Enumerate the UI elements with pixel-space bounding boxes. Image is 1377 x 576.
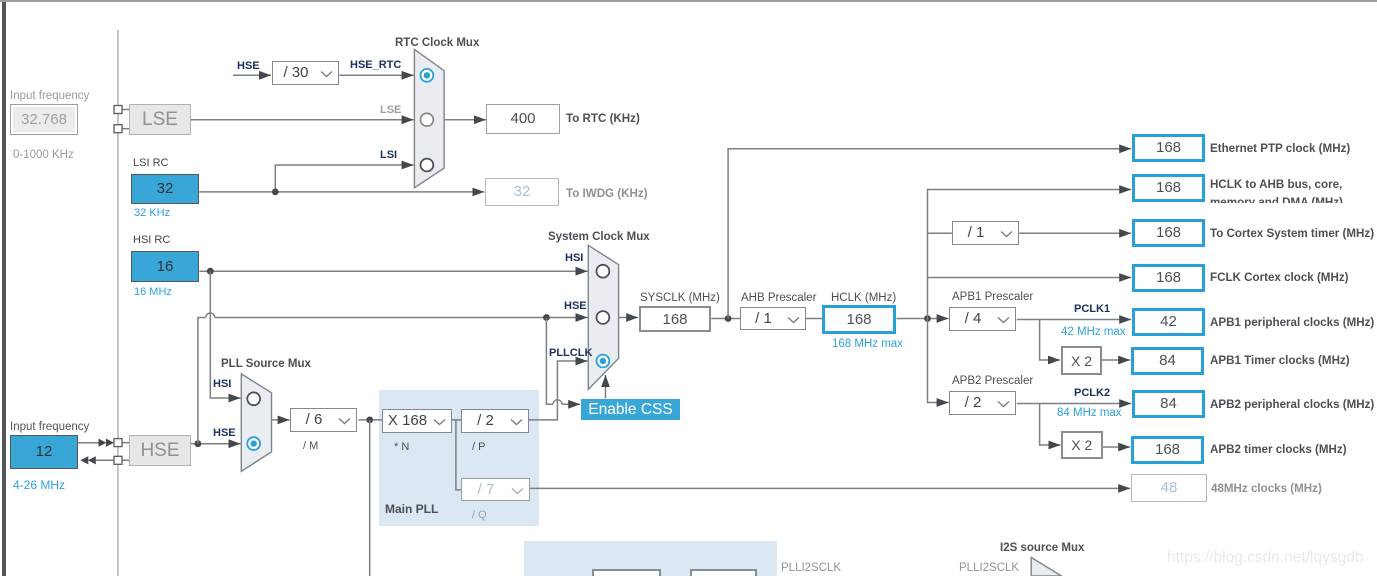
label HSE_RTC — [350, 59, 401, 71]
radio RTC mux HSE_RTC selected — [421, 69, 434, 82]
radio RTC mux LSE — [421, 113, 434, 126]
label APB1 Prescaler — [952, 291, 1033, 304]
wire SYSCLK to AHB prescaler — [711, 318, 740, 320]
wire HCLK to APB1 prescaler — [896, 318, 948, 320]
wire branch down to APB2 prescaler — [928, 319, 949, 403]
title RTC Clock Mux — [395, 37, 479, 50]
label To IWDG (KHz) — [566, 187, 648, 200]
dropdown APB1 /4 — [949, 307, 1016, 331]
radio system mux HSI — [597, 265, 610, 278]
node SYSCLK junction — [725, 315, 732, 322]
label To RTC (KHz) — [566, 112, 640, 125]
label PCLK1 — [1074, 303, 1110, 315]
label HSI RC — [133, 234, 170, 247]
label / M — [303, 440, 318, 453]
mux I2S source Mux partial — [1031, 557, 1061, 576]
label 32 KHz — [134, 207, 170, 220]
label HCLK to AHB two lines clipped — [1210, 176, 1343, 203]
dropdown /30 — [272, 61, 339, 85]
checkbox HSE bottom — [114, 456, 122, 464]
label PLLI2SCLK right — [959, 562, 1019, 575]
label * N — [394, 441, 409, 454]
button Enable CSS — [581, 399, 680, 420]
box APB2 peripheral 84 — [1132, 390, 1205, 418]
wire LSE box to RTC mux LSE input — [191, 119, 414, 121]
wire APB1 branch down to X2 — [1040, 320, 1060, 361]
box To IWDG 32 — [485, 178, 559, 206]
wire APB2 prescaler to APB2 peripheral box — [1017, 403, 1131, 405]
wire LSI 32 box to IWDG — [199, 191, 484, 193]
frame left bar — [2, 0, 6, 576]
checkbox HSE top — [114, 439, 122, 447]
dropdown cortex /1 — [952, 221, 1019, 245]
wire input frequency to HSE double arrow right — [78, 442, 99, 444]
label LSI RC — [133, 157, 168, 170]
label HSI at system mux — [565, 252, 583, 264]
box LSI 32 — [131, 174, 199, 204]
box APB1 peripheral 42 — [1132, 308, 1205, 336]
label PCLK2 — [1074, 387, 1110, 399]
wire AHB prescaler to HCLK box — [805, 318, 822, 320]
box HSE — [129, 435, 191, 466]
dropdown APB2 /2 — [949, 391, 1016, 415]
label HSE at PLL mux — [213, 427, 236, 439]
label 16 MHz — [134, 286, 172, 299]
label PLLCLK at system mux — [549, 347, 592, 359]
wire HSE to /30 divider — [233, 74, 271, 76]
box LSE — [129, 104, 191, 135]
radio RTC mux LSI — [421, 159, 434, 172]
dropdown X 168 — [382, 409, 452, 433]
wire system mux output to SYSCLK — [619, 317, 639, 319]
label / P — [472, 441, 485, 454]
label HCLK (MHz) — [831, 292, 896, 305]
radio system mux HSE — [597, 311, 610, 324]
node HSE junction — [195, 440, 202, 447]
box 48MHz disabled — [1131, 474, 1207, 502]
label 42 MHz max — [1061, 326, 1126, 339]
wire /P up to PLLCLK input of system mux — [529, 361, 588, 420]
dropdown AHB /1 — [740, 307, 806, 330]
wire HSE box output — [191, 443, 240, 445]
wire /30 to RTC mux HSE_RTC input — [339, 74, 413, 76]
label AHB Prescaler — [741, 292, 816, 305]
wire RTC mux output to 400 box — [444, 119, 486, 121]
label 84 MHz max — [1057, 407, 1122, 420]
wire HSE to input frequency double arrow left — [80, 456, 88, 464]
node HCLK junction — [924, 315, 931, 322]
mux PLL Source Mux — [241, 374, 271, 471]
label Input frequency top — [10, 90, 89, 103]
wire HSI 16 box to system clock mux — [199, 270, 587, 272]
panel PLLI2S — [524, 541, 777, 576]
wire cortex prescaler to cortex timer box — [1019, 232, 1131, 234]
label HSI at PLL mux — [213, 378, 231, 390]
label APB2 timer clocks — [1210, 443, 1347, 456]
wire APB2 branch down to X2 — [1040, 404, 1061, 446]
panel Main PLL — [379, 390, 539, 526]
box PLLI2S R partial — [690, 569, 757, 576]
title I2S source Mux — [1000, 542, 1084, 555]
label SYSCLK (MHz) — [640, 292, 720, 305]
frame top line — [0, 0, 1377, 2]
box SYSCLK 168 — [639, 306, 711, 332]
label APB1 Timer clocks — [1210, 354, 1350, 367]
watermark — [1167, 549, 1363, 567]
checkbox LSE bottom — [114, 125, 122, 133]
label Input frequency bottom — [10, 421, 89, 434]
wire PLL mux output to /M divider — [272, 419, 290, 421]
wire LSE checkbox stub bottom — [122, 128, 129, 130]
title System Clock Mux — [548, 231, 650, 244]
wire LSI branch to RTC mux LSI input — [275, 165, 413, 192]
wire SYSCLK up to Ethernet PTP box — [728, 149, 1131, 319]
radio PLL mux HSI — [247, 392, 260, 405]
label 4-26 MHz — [13, 479, 65, 492]
wire HSE down to Enable CSS with hop — [546, 318, 580, 405]
title Main PLL — [385, 503, 438, 516]
wire hop over PLLCLK vertical — [553, 400, 562, 405]
dropdown /6 — [290, 408, 357, 432]
dropdown /2 P — [461, 409, 529, 433]
radio system mux PLLCLK selected — [597, 355, 610, 368]
wire LSE checkbox stub top — [122, 109, 129, 111]
wire X2 to APB1 timer box — [1102, 359, 1130, 361]
box Ethernet PTP 168 — [1132, 134, 1205, 162]
label PLLI2SCLK left — [781, 562, 841, 575]
wire branch to cortex timer prescaler — [928, 232, 952, 234]
mux RTC Clock Mux — [414, 49, 444, 187]
box FCLK 168 — [1132, 264, 1205, 292]
wire X2 to APB2 timer box — [1103, 446, 1131, 448]
label HSE at system mux — [564, 300, 587, 312]
box X2 APB2 — [1061, 431, 1103, 460]
node HSE to CSS junction — [543, 314, 550, 321]
title PLL Source Mux — [221, 358, 311, 371]
label APB1 peripheral clocks — [1210, 316, 1374, 329]
dropdown /7 Q disabled — [461, 478, 530, 501]
wire APB1 prescaler to APB1 peripheral box — [1017, 319, 1131, 321]
label 168 MHz max — [832, 338, 903, 351]
label LSI at mux — [380, 149, 397, 161]
wire /Q to 48MHz clocks box — [530, 487, 1130, 489]
box HSI 16 — [131, 251, 199, 282]
wire HCLK branch to AHB bus box — [928, 190, 1132, 319]
label Ethernet PTP clock — [1210, 142, 1350, 155]
box HCLK 168 — [822, 305, 896, 334]
radio PLL mux HSE selected — [247, 437, 260, 450]
wire HSI down to PLL source mux — [210, 271, 240, 398]
label APB2 peripheral clocks — [1210, 398, 1374, 411]
label 48MHz clocks — [1211, 482, 1322, 495]
vertical divider line — [117, 30, 119, 576]
wire hop over HSI vertical — [206, 313, 215, 318]
wire /M to X N multiplier — [358, 419, 382, 421]
box APB2 timer 168 — [1131, 436, 1204, 464]
wire PLL M down to PLLI2S — [369, 420, 371, 576]
node LSI junction — [272, 189, 279, 196]
label / Q — [472, 509, 487, 522]
label To Cortex System timer — [1210, 227, 1374, 240]
box input 32.768 — [10, 104, 78, 135]
box APB1 timer 84 — [1131, 347, 1204, 375]
wire X N to /P divider — [452, 419, 461, 421]
label APB2 Prescaler — [952, 375, 1033, 388]
checkbox LSE top — [114, 106, 122, 114]
box X2 APB1 — [1061, 346, 1102, 375]
label HSE before /30 — [237, 60, 260, 72]
box cortex timer 168 — [1132, 219, 1205, 247]
box PLLI2S N partial — [592, 569, 661, 576]
box To RTC 400 — [486, 104, 560, 134]
label FCLK Cortex clock — [1210, 271, 1349, 284]
mux System Clock Mux — [588, 245, 618, 389]
wire branch to FCLK box — [928, 277, 1132, 279]
label LSE at mux — [380, 104, 401, 117]
wire branch down to /Q divider — [456, 420, 461, 490]
node PLL M junction — [366, 417, 373, 424]
wire HSE up to system clock mux with hop — [198, 318, 588, 444]
box HCLK AHB 168 — [1132, 174, 1205, 202]
box input 12 — [10, 435, 78, 469]
wire Enable CSS up arrow — [605, 375, 607, 399]
node HSI junction — [207, 268, 214, 275]
label 0-1000 KHz — [13, 149, 74, 162]
